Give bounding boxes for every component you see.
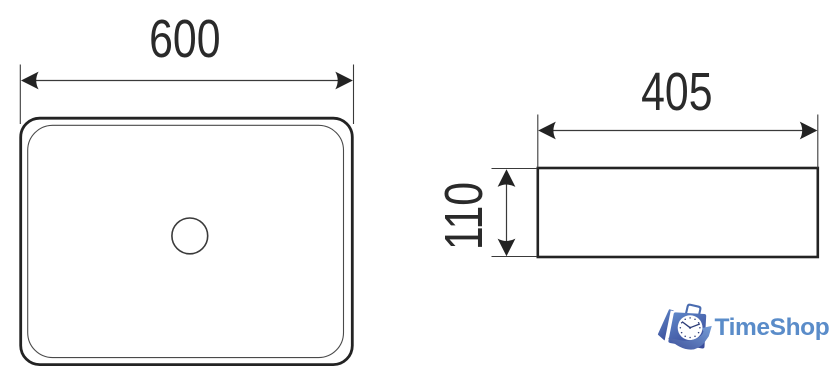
basin inner bowl edge xyxy=(28,125,344,357)
basin outer rim (top view) xyxy=(21,118,353,364)
drain circle xyxy=(172,218,208,254)
extension line top (110 dim) xyxy=(492,168,538,170)
logo flap-bag white slit xyxy=(666,311,672,342)
arrowhead right (600) xyxy=(335,72,353,90)
arrowhead right (405) xyxy=(800,122,818,140)
logo swoosh arrow with arrowhead xyxy=(668,326,712,350)
logo clock hands xyxy=(683,322,700,328)
extension line right (405 dim) xyxy=(817,115,819,169)
logo clock ticks xyxy=(680,317,701,338)
logo bag back flap xyxy=(659,310,673,339)
extension line right (600 dim) xyxy=(353,65,355,125)
side view rectangle xyxy=(538,168,818,257)
extension line bottom (110 dim) xyxy=(492,256,538,258)
svg-text:405: 405 xyxy=(641,62,712,122)
logo clock face xyxy=(678,315,703,340)
logo clock center dot xyxy=(689,327,691,329)
arrowhead up (110) xyxy=(498,169,516,187)
dimension line 600 xyxy=(35,80,338,82)
arrowhead down (110) xyxy=(498,239,516,257)
svg-text:110: 110 xyxy=(435,182,495,250)
svg-text:600: 600 xyxy=(149,10,220,70)
dimension line 110 xyxy=(506,183,508,243)
svg-text:TimeShop: TimeShop xyxy=(715,314,830,341)
arrowhead left (600) xyxy=(21,72,39,90)
arrowhead left (405) xyxy=(538,122,556,140)
extension line left (600 dim) xyxy=(19,65,21,125)
logo bag handle xyxy=(686,304,701,318)
extension line left (405 dim) xyxy=(537,115,539,169)
dimension line 405 xyxy=(552,130,804,132)
logo bag body xyxy=(670,314,704,346)
